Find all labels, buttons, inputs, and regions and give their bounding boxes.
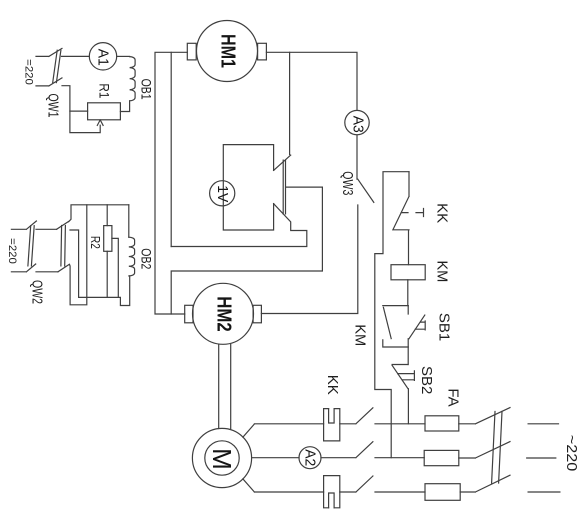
svg-text:KM: KM [434,260,451,282]
svg-text:R2: R2 [88,236,103,249]
svg-text:=220: =220 [23,59,35,85]
svg-text:1V: 1V [214,185,231,202]
svg-text:HM2: HM2 [213,296,236,332]
svg-text:FA: FA [445,388,462,406]
svg-text:QW2: QW2 [29,280,46,304]
svg-text:R1: R1 [96,83,111,98]
svg-text:KK: KK [324,375,341,395]
svg-text:A3: A3 [349,116,366,133]
svg-text:KM: KM [351,324,368,346]
svg-text:QW1: QW1 [45,94,62,118]
svg-text:OB2: OB2 [139,248,154,269]
svg-text:SB2: SB2 [418,366,435,394]
svg-text:=220: =220 [6,238,18,264]
svg-text:A2: A2 [302,449,319,466]
svg-text:SB1: SB1 [436,313,453,341]
svg-text:HM1: HM1 [216,34,239,68]
svg-text:~220: ~220 [563,435,580,472]
svg-text:KK: KK [434,203,451,223]
svg-text:M: M [207,448,237,470]
svg-text:OB1: OB1 [139,79,154,100]
svg-text:QW3: QW3 [339,171,356,195]
svg-text:A1: A1 [95,49,112,66]
